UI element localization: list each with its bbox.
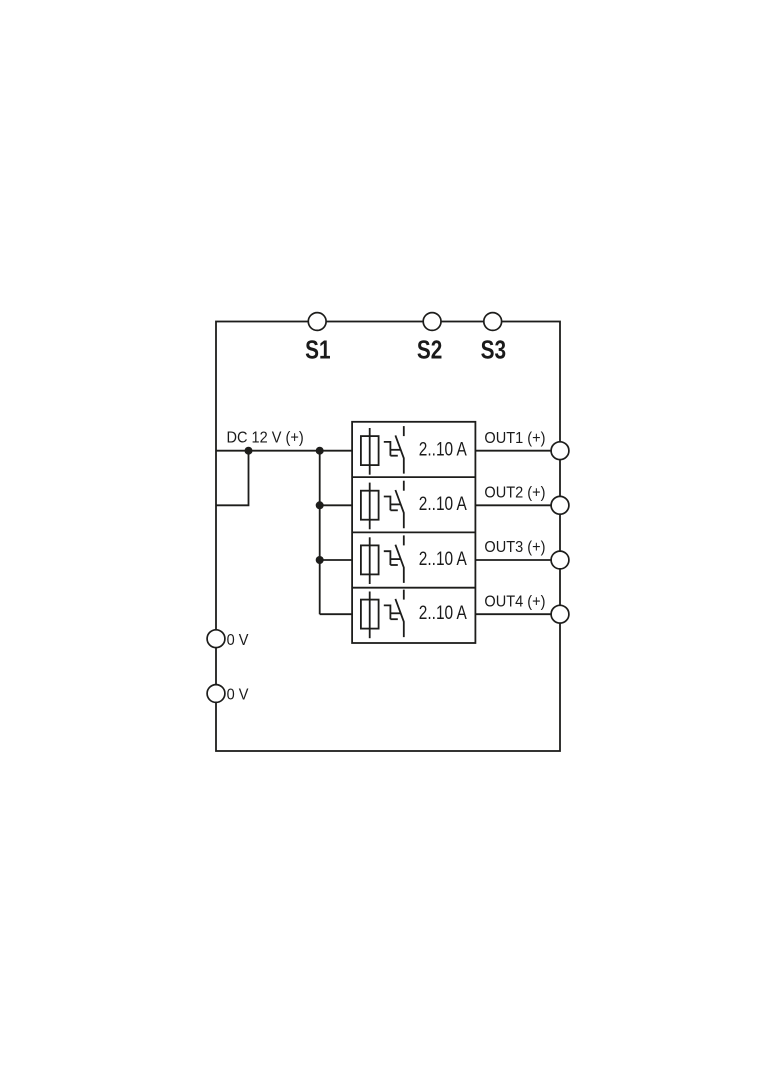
svg-text:OUT3 (+): OUT3 (+) [484, 539, 545, 557]
svg-text:2..10 A: 2..10 A [419, 492, 467, 514]
svg-text:DC 12 V (+): DC 12 V (+) [227, 429, 304, 447]
svg-text:S2: S2 [417, 335, 442, 364]
svg-text:OUT4 (+): OUT4 (+) [484, 593, 545, 611]
svg-text:0 V: 0 V [227, 631, 250, 649]
svg-text:OUT1 (+): OUT1 (+) [484, 429, 545, 447]
svg-text:S3: S3 [481, 335, 506, 364]
svg-text:0 V: 0 V [227, 686, 250, 704]
svg-text:2..10 A: 2..10 A [419, 438, 467, 460]
svg-text:OUT2 (+): OUT2 (+) [484, 484, 545, 502]
svg-text:S1: S1 [305, 335, 330, 364]
svg-text:2..10 A: 2..10 A [419, 601, 467, 623]
svg-text:2..10 A: 2..10 A [419, 547, 467, 569]
